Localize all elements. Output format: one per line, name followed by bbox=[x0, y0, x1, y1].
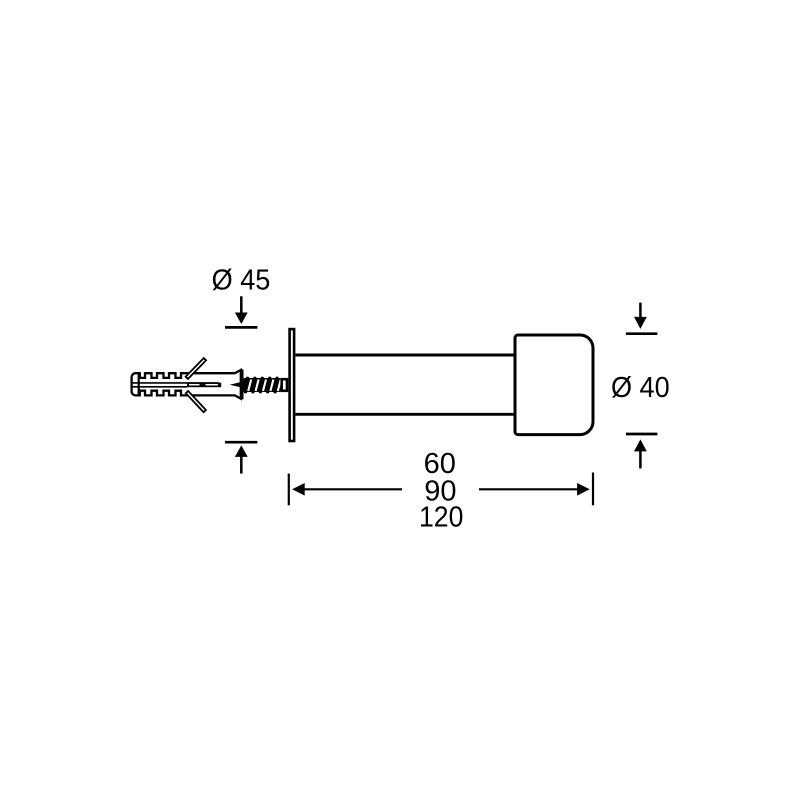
svg-text:Ø 40: Ø 40 bbox=[611, 372, 670, 404]
svg-text:120: 120 bbox=[419, 502, 463, 534]
svg-text:Ø 45: Ø 45 bbox=[212, 264, 271, 296]
